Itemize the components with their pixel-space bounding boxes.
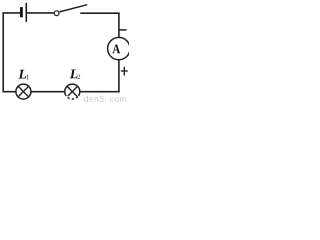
battery positive plate (long thin) <box>25 3 27 22</box>
lamp L1 circle <box>16 84 31 99</box>
switch blade <box>60 5 88 12</box>
lamp L2 circle <box>65 84 80 99</box>
wire right vertical lower <box>118 60 120 93</box>
ammeter minus terminal tick <box>119 29 127 31</box>
wire bottom left segment <box>3 91 16 93</box>
ammeter plus terminal sign <box>121 70 128 72</box>
switch pivot circle <box>54 11 59 16</box>
label L1 letter <box>18 70 26 79</box>
wire bottom right segment <box>80 91 120 93</box>
label L2 subscript 2 <box>78 75 81 79</box>
battery negative plate (short thick) <box>20 7 23 17</box>
lamp L2 bottom arc watermark gaps <box>66 96 78 99</box>
lamp L2 cross <box>67 86 78 97</box>
ammeter label A <box>112 44 120 53</box>
wire battery to switch <box>26 12 54 14</box>
wire right vertical upper <box>118 13 120 38</box>
label L1 subscript 1 <box>27 75 29 79</box>
wire top-right <box>80 12 119 14</box>
wire top-left to battery <box>3 12 21 14</box>
wire left vertical <box>2 13 4 93</box>
lamp L1 cross <box>18 86 29 97</box>
label L2 letter <box>70 69 78 78</box>
ammeter circle <box>108 37 130 59</box>
wire bottom middle segment <box>31 91 65 93</box>
watermark text <box>84 96 88 102</box>
